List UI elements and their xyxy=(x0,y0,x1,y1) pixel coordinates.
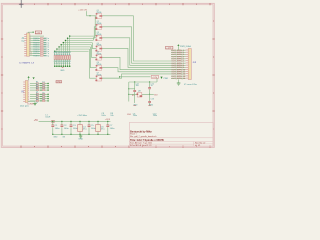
sheet border frame xyxy=(1,3,214,147)
svg-text:D6: D6 xyxy=(42,95,44,97)
top power rail wire xyxy=(39,120,111,122)
series resistors on J1 lines xyxy=(33,38,49,58)
notes text left of J3 xyxy=(21,90,24,93)
wire Q7 output to label xyxy=(102,77,150,78)
title block frame xyxy=(129,123,213,147)
svg-text:D4: D4 xyxy=(42,88,44,90)
svg-text:GND: GND xyxy=(133,104,138,106)
connector J3 pin numbers xyxy=(28,82,30,103)
inductor L1 in series on rail xyxy=(52,121,55,123)
svg-text:OUT_SPIN_7: OUT_SPIN_7 xyxy=(171,63,184,65)
svg-text:100n: 100n xyxy=(153,115,157,117)
label below J3 xyxy=(27,104,34,106)
title block text xyxy=(130,130,205,147)
power flag P2 xyxy=(177,44,191,50)
svg-text:D3: D3 xyxy=(42,86,44,88)
global label right end of rail xyxy=(105,119,111,121)
svg-text:R4: R4 xyxy=(36,88,38,90)
svg-text:10k: 10k xyxy=(110,115,113,117)
resistor R1 xyxy=(69,52,71,65)
connector J1 reference text xyxy=(21,37,25,42)
svg-text:Rev: No 1.0: Rev: No 1.0 xyxy=(195,143,205,145)
svg-text:10u: 10u xyxy=(136,85,139,87)
svg-text:Q2: Q2 xyxy=(97,21,99,23)
transistor Q7 xyxy=(95,73,102,82)
resistor R3 xyxy=(64,52,66,65)
capacitor C5 xyxy=(88,121,97,135)
svg-text:File: grbl_7_spindle_board.sch: File: grbl_7_spindle_board.sch xyxy=(130,136,156,138)
svg-text:GND: GND xyxy=(78,139,83,141)
svg-text:1k: 1k xyxy=(69,54,71,56)
global label BO xyxy=(154,94,157,96)
connector J1 body xyxy=(27,33,30,56)
capacitor C3 xyxy=(70,121,79,135)
resistor R8 xyxy=(54,52,56,65)
svg-text:OUT_SPIN_3: OUT_SPIN_3 xyxy=(171,54,184,56)
svg-text:R10 1k: R10 1k xyxy=(33,38,39,40)
output wire bundle to P2 xyxy=(102,16,152,78)
svg-text:R17 1k: R17 1k xyxy=(33,53,39,55)
svg-text:+12V: +12V xyxy=(166,48,172,50)
svg-text:OUT_SPIN_11: OUT_SPIN_11 xyxy=(171,72,185,74)
wire from label to Q1 xyxy=(87,11,97,16)
sub-circuit bottom marks xyxy=(127,106,157,118)
svg-text:GND: GND xyxy=(53,136,58,138)
svg-text:100n: 100n xyxy=(110,128,116,130)
svg-text:+3V3: +3V3 xyxy=(105,119,111,121)
svg-text:OUT_SPIN_1: OUT_SPIN_1 xyxy=(171,50,184,52)
svg-text:D1: D1 xyxy=(42,82,44,84)
diode D6 row xyxy=(30,95,49,100)
common node label below resistor array xyxy=(60,68,65,72)
svg-text:Q6: Q6 xyxy=(97,62,99,64)
capacitor C1 xyxy=(51,121,60,135)
svg-text:GND: GND xyxy=(127,114,132,116)
svg-text:OUT_SPIN_8: OUT_SPIN_8 xyxy=(171,65,184,67)
wire sub-circuit mid rail xyxy=(129,93,154,95)
svg-text:+5V: +5V xyxy=(34,120,39,122)
svg-text:1k: 1k xyxy=(62,54,64,56)
transistor Q4 xyxy=(95,43,102,52)
svg-text:Q7: Q7 xyxy=(97,73,99,75)
diode D4 row xyxy=(30,88,49,93)
svg-text:ST6 o: ST6 o xyxy=(44,51,49,53)
capacitor C7 xyxy=(106,121,115,135)
value text above rail mid xyxy=(77,114,87,117)
diode D1 row xyxy=(30,82,49,87)
connector J1 pin numbers xyxy=(30,35,32,56)
bottom ground rail wire xyxy=(53,133,111,135)
svg-text:100n: 100n xyxy=(55,128,61,130)
svg-text:Id: 1/1: Id: 1/1 xyxy=(195,145,200,147)
resistor R5 xyxy=(60,52,62,65)
wires J1 right pins xyxy=(30,36,45,55)
connector P2 body xyxy=(188,49,191,80)
global label above P2 xyxy=(166,46,173,49)
power flag at spindle label xyxy=(160,77,168,81)
svg-text:100n: 100n xyxy=(133,115,137,117)
svg-text:C11: C11 xyxy=(136,83,139,85)
power flag above J3 xyxy=(28,76,30,80)
svg-text:R15 1k: R15 1k xyxy=(33,49,39,51)
diode D5 row xyxy=(30,92,49,97)
svg-text:BO: BO xyxy=(154,94,157,96)
value text right of P2 ground xyxy=(184,84,198,86)
svg-text:R18 1k: R18 1k xyxy=(33,55,39,57)
svg-text:GND: GND xyxy=(149,104,154,106)
svg-text:IN: IN xyxy=(21,90,24,93)
wire sub-circuit left branch xyxy=(128,82,135,102)
svg-text:+12V_IN: +12V_IN xyxy=(78,10,87,12)
svg-text:C13: C13 xyxy=(151,99,154,101)
wire J1 top pin xyxy=(28,31,34,33)
transistor Q6 xyxy=(95,62,102,71)
connector P2 pins xyxy=(186,50,189,78)
svg-text:D5: D5 xyxy=(42,92,44,94)
ground symbol bottom rail xyxy=(78,134,83,140)
diode D2 row xyxy=(30,84,49,89)
svg-text:100n: 100n xyxy=(101,115,105,117)
wire sub-circuit top rail xyxy=(129,78,157,82)
svg-text:R5: R5 xyxy=(36,92,38,94)
global label near blocks xyxy=(56,81,62,84)
transistor Q3 xyxy=(95,32,102,41)
reference text below-left of J3 xyxy=(20,106,29,108)
svg-text:ST4 o: ST4 o xyxy=(44,47,49,49)
svg-text:GND: GND xyxy=(60,70,65,72)
capacitor C4 electrolytic xyxy=(78,121,88,135)
diode D8 row xyxy=(30,99,49,104)
gate fan wires to transistors xyxy=(90,16,97,78)
svg-text:R16 1k: R16 1k xyxy=(33,51,39,53)
svg-text:D8: D8 xyxy=(42,99,44,101)
svg-text:R13 1k: R13 1k xyxy=(33,45,39,47)
svg-text:D2: D2 xyxy=(42,84,44,86)
transistor Q5 xyxy=(95,52,102,61)
svg-text:R1: R1 xyxy=(36,82,38,84)
svg-text:OUT_SPIN_9: OUT_SPIN_9 xyxy=(171,67,184,69)
dark crosshair mark top border xyxy=(19,0,24,8)
svg-text:1k: 1k xyxy=(56,54,58,56)
svg-text:1k: 1k xyxy=(64,54,66,56)
diode D3 row xyxy=(30,86,49,91)
svg-text:Q3: Q3 xyxy=(97,32,99,34)
junction dots below resistor array xyxy=(54,65,71,67)
junction dot on Q7 wire xyxy=(119,76,120,77)
svg-text:OUT_SPIN_2: OUT_SPIN_2 xyxy=(171,52,184,54)
svg-text:IC conn 0.1in: IC conn 0.1in xyxy=(184,84,198,86)
transistor Q8 sub-circuit xyxy=(132,90,142,97)
svg-text:GND: GND xyxy=(57,82,62,84)
connector J3 body xyxy=(25,81,28,103)
svg-text:1k: 1k xyxy=(54,54,56,56)
global label +12V spindle xyxy=(151,76,158,79)
capacitor C12 xyxy=(148,82,154,106)
capacitor C6 electrolytic xyxy=(96,121,106,135)
svg-text:C12: C12 xyxy=(151,83,154,85)
svg-text:OUT_SPIN_10: OUT_SPIN_10 xyxy=(171,69,186,71)
staircase wires to resistor array xyxy=(54,35,95,55)
svg-text:R9: R9 xyxy=(132,95,134,97)
svg-text:R8: R8 xyxy=(36,99,38,101)
svg-text:Bestueckt by Mike: Bestueckt by Mike xyxy=(130,130,152,133)
svg-text:ST3 o: ST3 o xyxy=(44,45,49,47)
diode D7 row xyxy=(30,97,49,102)
svg-text:R2: R2 xyxy=(36,84,38,86)
svg-text:OUT_SPIN_4: OUT_SPIN_4 xyxy=(171,56,184,58)
svg-text:R14 1k: R14 1k xyxy=(33,47,39,49)
svg-text:R6: R6 xyxy=(36,95,38,97)
ground symbol below J3 xyxy=(28,102,37,106)
transistor Q1 xyxy=(95,10,102,19)
svg-text:ST2 o: ST2 o xyxy=(44,42,49,44)
svg-text:1k: 1k xyxy=(60,54,62,56)
wires into P2 pins xyxy=(152,50,186,78)
notes text right of P2 xyxy=(193,61,197,64)
svg-text:R12 1k: R12 1k xyxy=(33,42,39,44)
svg-text:10uH: 10uH xyxy=(45,116,50,118)
spare value text 1 xyxy=(101,113,105,117)
notes text below J1 xyxy=(19,61,34,64)
svg-text:R3: R3 xyxy=(36,86,38,88)
connector J3 left pins xyxy=(23,82,25,101)
svg-text:1u: 1u xyxy=(151,85,153,87)
svg-text:R11 1k: R11 1k xyxy=(33,40,39,42)
svg-text:ST8 o: ST8 o xyxy=(44,55,49,57)
global label +5V bottom rail xyxy=(34,120,39,122)
svg-text:PWR: PWR xyxy=(164,78,169,80)
svg-text:Q5: Q5 xyxy=(97,52,99,54)
svg-text:Q8: Q8 xyxy=(138,90,141,92)
connector J1 left pins xyxy=(24,34,26,56)
net label marks below rail left xyxy=(53,136,65,138)
svg-text:100n: 100n xyxy=(64,128,70,130)
transistor Q2 xyxy=(95,21,102,30)
svg-text:OUT_SPIN_12: OUT_SPIN_12 xyxy=(171,74,186,76)
value text above rail left xyxy=(45,115,50,119)
svg-text:ST7 o: ST7 o xyxy=(44,53,49,55)
spare value text 1b xyxy=(110,113,113,117)
resistor R7 xyxy=(56,52,58,65)
svg-text:ST5 o: ST5 o xyxy=(44,49,49,51)
svg-text:(5x2 pin): (5x2 pin) xyxy=(20,106,29,108)
svg-text:1k: 1k xyxy=(58,54,60,56)
global label +5V at J1 top xyxy=(35,31,41,34)
svg-text:ST0 o: ST0 o xyxy=(44,38,49,40)
capacitor C11 xyxy=(133,82,139,106)
ground symbol below P2 xyxy=(177,80,181,86)
resistor R4 xyxy=(62,52,64,65)
svg-text:OUT_SPIN_5: OUT_SPIN_5 xyxy=(171,59,184,61)
svg-text:Title: Grbl 7 Spindle v 0587B: Title: Grbl 7 Spindle v 0587B xyxy=(130,139,164,142)
svg-text:+5V: +5V xyxy=(36,32,40,34)
global label net top xyxy=(78,10,87,12)
net arrow above J3 wires xyxy=(33,77,35,79)
resistor R6 xyxy=(58,52,60,65)
svg-text:Q1: Q1 xyxy=(97,10,99,12)
svg-text:Q4: Q4 xyxy=(97,43,99,45)
svg-text:1k: 1k xyxy=(66,54,68,56)
global labels P2 nets xyxy=(171,50,186,80)
svg-text:ST1 o: ST1 o xyxy=(44,40,49,42)
svg-text:D7: D7 xyxy=(42,97,44,99)
capacitor C2 xyxy=(61,121,70,135)
svg-text:R7: R7 xyxy=(36,97,38,99)
resistor R2 xyxy=(66,52,68,65)
frame zone ticks xyxy=(1,3,215,148)
svg-text:OUT_SPIN_13: OUT_SPIN_13 xyxy=(171,76,186,78)
svg-text:OUT_SPIN_6: OUT_SPIN_6 xyxy=(171,61,184,63)
